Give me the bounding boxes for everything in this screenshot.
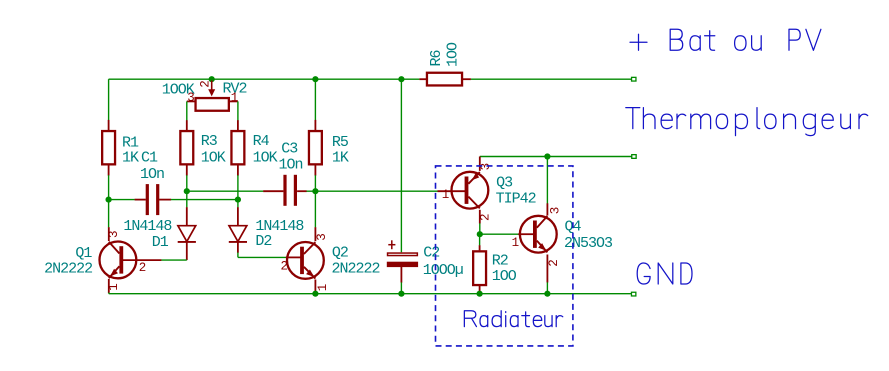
svg-text:3: 3 (315, 234, 329, 241)
svg-text:C1: C1 (141, 150, 158, 167)
svg-text:2: 2 (199, 81, 213, 88)
svg-text:1K: 1K (122, 150, 139, 167)
svg-text:1: 1 (512, 236, 519, 250)
svg-text:1: 1 (107, 284, 121, 291)
svg-text:2: 2 (547, 260, 561, 267)
svg-text:1OO: 1OO (492, 268, 517, 285)
svg-text:1On: 1On (279, 156, 303, 173)
svg-text:3: 3 (107, 231, 121, 238)
svg-text:C3: C3 (281, 140, 298, 157)
svg-text:Q3: Q3 (496, 174, 513, 191)
svg-text:R2: R2 (492, 252, 508, 269)
svg-text:1: 1 (231, 91, 238, 105)
svg-text:Q1: Q1 (75, 245, 92, 262)
svg-text:3: 3 (549, 207, 563, 214)
svg-text:D2: D2 (255, 233, 271, 250)
svg-text:2N53O3: 2N53O3 (564, 235, 613, 252)
svg-text:1OO: 1OO (445, 42, 462, 67)
svg-text:3: 3 (479, 163, 493, 170)
svg-text:1OOOµ: 1OOOµ (423, 262, 463, 279)
svg-text:TIP42: TIP42 (496, 190, 536, 207)
svg-text:2: 2 (478, 214, 492, 221)
svg-text:D1: D1 (152, 234, 169, 251)
svg-text:1OK: 1OK (201, 149, 226, 166)
svg-text:C2: C2 (423, 244, 439, 261)
svg-text:3: 3 (187, 91, 194, 105)
svg-text:1OK: 1OK (253, 149, 278, 166)
svg-text:2N2222: 2N2222 (44, 261, 92, 278)
svg-text:1N4148: 1N4148 (123, 218, 172, 235)
svg-text:R3: R3 (201, 133, 218, 150)
svg-text:R4: R4 (253, 133, 270, 150)
svg-text:1: 1 (442, 188, 449, 202)
svg-text:Q2: Q2 (332, 245, 348, 262)
svg-text:2: 2 (281, 259, 288, 273)
svg-text:1: 1 (316, 284, 330, 291)
svg-text:2N2222: 2N2222 (332, 260, 380, 277)
svg-text:2: 2 (139, 261, 146, 275)
svg-text:1On: 1On (140, 166, 164, 183)
svg-text:1K: 1K (332, 149, 349, 166)
svg-text:R6: R6 (428, 49, 445, 66)
